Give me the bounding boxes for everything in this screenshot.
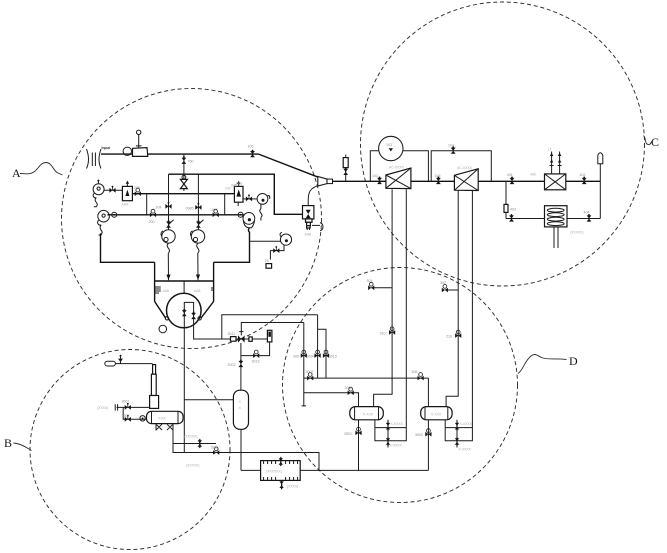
svg-text:3602: 3602 xyxy=(122,414,130,418)
svg-text:( ): ( ) xyxy=(548,147,551,151)
wire: rail connector left xyxy=(146,194,148,215)
valve 106 xyxy=(436,177,441,185)
vessel V2 xyxy=(421,407,452,420)
wire: header line of pump group xyxy=(169,174,303,214)
valve at pump P1 outlet xyxy=(109,186,115,193)
svg-text:(XXXXX): (XXXXX) xyxy=(184,435,198,439)
svg-text:240: 240 xyxy=(225,186,231,190)
wire: pump P5 discharge with flex xyxy=(197,243,199,280)
wire: diagonal to mixer nozzle xyxy=(259,154,319,177)
V2 discharge valves xyxy=(455,420,459,448)
svg-text:(XXXX): (XXXX) xyxy=(97,406,108,410)
wire: main inlet line xyxy=(101,153,259,155)
svg-text:AC-XXXX: AC-XXXX xyxy=(457,166,473,170)
svg-text:306: 306 xyxy=(412,370,418,374)
leader D xyxy=(518,354,567,373)
svg-text:AA8: AA8 xyxy=(194,289,201,293)
circle valve on lower rail right xyxy=(238,212,243,217)
svg-text:0985: 0985 xyxy=(186,206,194,210)
burner vessel B1 xyxy=(147,411,184,430)
valve 206 xyxy=(213,209,219,217)
wire: fuel inlet upper xyxy=(117,406,150,408)
deaerator box xyxy=(261,461,301,481)
svg-text:D: D xyxy=(569,354,578,368)
wire: drop to pump P4 xyxy=(168,174,170,229)
wire: rail connector right xyxy=(224,194,226,215)
wire: V1 downcomer xyxy=(358,420,360,471)
valve 0985 xyxy=(195,203,201,210)
wire: bypass loop 2 xyxy=(431,151,491,181)
valve 3013 xyxy=(323,350,329,358)
angle valve above pump P4 xyxy=(166,220,174,228)
wire: left riser xyxy=(505,181,507,219)
wire: AAD outlet xyxy=(243,198,257,200)
valve 401 xyxy=(510,177,515,185)
dashed circle D xyxy=(283,268,518,503)
heat exchanger E1 xyxy=(386,168,411,189)
filter AAA xyxy=(122,181,132,201)
svg-text:Y-XX: Y-XX xyxy=(158,417,166,421)
valve 3007 xyxy=(307,373,313,381)
V1 discharge valves xyxy=(386,420,390,448)
svg-text:A: A xyxy=(12,166,21,180)
svg-text:301: 301 xyxy=(367,279,373,283)
svg-text:X-XXXX: X-XXXX xyxy=(460,422,473,426)
arrow into hopper left xyxy=(166,275,170,281)
blob valve on box top xyxy=(279,457,283,466)
svg-text:245: 245 xyxy=(231,184,237,188)
wire: AAB side outlet xyxy=(312,224,320,226)
pump P2 xyxy=(98,210,110,235)
svg-text:3004: 3004 xyxy=(307,354,315,358)
pump P7 small circulation xyxy=(280,232,292,245)
wire: leg E1-b xyxy=(405,189,407,427)
valve 402 xyxy=(582,177,587,185)
svg-text:3002: 3002 xyxy=(228,363,236,367)
dashed circle B xyxy=(30,350,230,550)
hopper/furnace vessel xyxy=(155,262,214,318)
pump P3 (teardrop) xyxy=(243,213,255,228)
valve 310 xyxy=(389,327,395,335)
arrow into hopper right xyxy=(196,275,200,281)
wire: main hot gas line xyxy=(333,180,601,182)
svg-text:700: 700 xyxy=(188,160,194,164)
leader B xyxy=(14,443,32,451)
svg-text:AC-XXXX: AC-XXXX xyxy=(389,166,405,170)
wire: bypass loop 1 xyxy=(370,151,428,181)
pump P1 (blower with curl) xyxy=(93,180,104,207)
svg-text:X-XXXX: X-XXXX xyxy=(390,443,403,447)
valve 3601 xyxy=(125,403,131,410)
valve 700 on riser xyxy=(183,154,185,174)
svg-text:310: 310 xyxy=(380,331,386,335)
instrument probes above E3 xyxy=(550,152,562,174)
wire: meter drain xyxy=(241,342,270,356)
wire: nozzle down pipe to AAB xyxy=(308,186,317,206)
wire: furnace outlet line xyxy=(194,327,268,340)
svg-text:3008: 3008 xyxy=(345,386,353,390)
svg-text:AAA: AAA xyxy=(122,203,130,207)
valve 204 xyxy=(165,202,171,209)
leader C xyxy=(644,136,654,145)
svg-text:AA8: AA8 xyxy=(163,289,170,293)
svg-text:3007: 3007 xyxy=(306,370,314,374)
valve 210 xyxy=(455,330,461,338)
blob valve under box xyxy=(281,480,283,489)
svg-text:(XXXXX): (XXXXX) xyxy=(570,231,584,235)
valve 404 xyxy=(587,214,592,222)
wire: upper branch line xyxy=(222,315,318,339)
wire: leg E1-a xyxy=(374,189,393,406)
valve 3502 xyxy=(425,429,431,437)
wire: left outer feed xyxy=(101,233,155,262)
valve 3004 xyxy=(315,350,321,358)
svg-text:210: 210 xyxy=(446,335,452,339)
wire: leg E2-a xyxy=(446,191,458,407)
valve 306 xyxy=(418,373,424,381)
coil heat exchanger xyxy=(545,206,568,248)
drain fitting xyxy=(266,264,272,269)
valve 3002 xyxy=(239,360,244,368)
wire: feed line to vessel V1 xyxy=(304,393,359,407)
svg-text:206: 206 xyxy=(212,208,218,212)
svg-text:401: 401 xyxy=(507,173,513,177)
valve 3012 xyxy=(253,350,259,358)
circle valve on lower rail left xyxy=(112,212,117,217)
svg-text:C: C xyxy=(651,135,659,149)
svg-text:X-XXXX: X-XXXX xyxy=(391,422,404,426)
svg-text:200: 200 xyxy=(149,220,155,224)
svg-text:(XXXX): (XXXX) xyxy=(287,484,298,488)
pump P4 xyxy=(161,230,175,243)
svg-text:3502: 3502 xyxy=(415,433,423,437)
svg-text:102: 102 xyxy=(372,174,378,178)
wire: right downcomer xyxy=(599,164,601,219)
circle valve at vessel inlet xyxy=(140,416,145,421)
wire: branch risers xyxy=(303,323,305,406)
control valve (globe) on center drop xyxy=(180,174,187,191)
svg-text:402: 402 xyxy=(580,173,586,177)
valve 200 xyxy=(150,209,156,217)
svg-text:3012: 3012 xyxy=(252,360,260,364)
valve 102 xyxy=(377,177,382,185)
pump P6 xyxy=(257,194,270,221)
wire: lower rail xyxy=(107,214,243,216)
svg-text:25: 25 xyxy=(265,259,269,263)
component AAB xyxy=(303,206,314,230)
wire: drop to water tank xyxy=(240,343,242,390)
blob valve on spare outlet xyxy=(198,439,202,448)
foot circle left xyxy=(165,317,168,320)
heat exchanger E3 xyxy=(545,174,566,190)
svg-text:300: 300 xyxy=(293,354,299,358)
valve 300 xyxy=(301,350,307,358)
svg-text:3011: 3011 xyxy=(228,332,236,336)
mixer nozzle xyxy=(318,177,327,187)
svg-text:3501: 3501 xyxy=(344,432,352,436)
svg-text:408: 408 xyxy=(530,172,536,176)
blower 103 xyxy=(379,136,403,160)
svg-text:505: 505 xyxy=(211,446,217,450)
angle valve above pump P5 xyxy=(196,220,204,228)
wire: upper rail xyxy=(104,189,123,191)
valve 245 xyxy=(246,194,252,201)
svg-text:204: 204 xyxy=(156,205,162,209)
dashed circle C xyxy=(361,2,645,286)
valve 104 xyxy=(451,146,456,154)
svg-text:104: 104 xyxy=(448,143,454,147)
wire: drop to pump P5 xyxy=(197,174,199,229)
wire: P7 outlet xyxy=(270,245,284,260)
filter AAD xyxy=(234,181,243,206)
pump P5 xyxy=(190,230,204,243)
wire: furnace drain down to tank xyxy=(183,320,185,453)
wire: tank drain xyxy=(240,429,242,470)
burner lances inside furnace xyxy=(182,302,196,326)
valve 302 stub xyxy=(445,289,458,291)
svg-text:302: 302 xyxy=(440,281,446,285)
svg-text:X-XXXX: X-XXXX xyxy=(459,447,472,451)
flow meter xyxy=(267,330,272,342)
heat exchanger E2 xyxy=(454,169,478,191)
strainer 403 xyxy=(504,204,508,212)
wire: V2 feed drop xyxy=(427,378,429,407)
svg-text:404: 404 xyxy=(584,210,590,214)
vent flask xyxy=(598,153,603,164)
leader A xyxy=(20,163,63,176)
wire: V2 lower loop xyxy=(445,420,472,441)
svg-text:X-XXX: X-XXX xyxy=(363,412,374,416)
blower fan F1 on inlet line xyxy=(123,130,148,156)
wire: V1 lower loop xyxy=(375,420,406,441)
svg-text:265: 265 xyxy=(134,186,140,190)
svg-text:X-XXX: X-XXX xyxy=(431,412,442,416)
wire: right outer feed xyxy=(214,228,250,263)
svg-text:3013: 3013 xyxy=(329,354,337,358)
wire: second branch line xyxy=(241,322,304,324)
valve on P7 outlet xyxy=(273,246,279,253)
svg-text:403: 403 xyxy=(510,208,516,212)
oil cylinder with rod xyxy=(150,365,159,409)
svg-text:AAB: AAB xyxy=(305,232,313,236)
svg-text:Input: Input xyxy=(102,146,111,150)
igniter lamp xyxy=(105,355,153,366)
svg-text:106: 106 xyxy=(435,174,441,178)
valve 301 stub xyxy=(371,287,392,289)
svg-text:(XXXXX): (XXXXX) xyxy=(186,464,200,468)
svg-text:B: B xyxy=(4,436,12,450)
valve 505 xyxy=(213,447,219,455)
valve 3602 xyxy=(125,415,131,422)
wire: V2 downcomer xyxy=(427,420,429,471)
wire: branch to water tank xyxy=(184,399,233,401)
svg-text:(XXXXXX): (XXXXXX) xyxy=(266,470,282,474)
svg-text:3601: 3601 xyxy=(122,400,130,404)
wire: distribution line to D xyxy=(304,377,429,379)
valve 105 xyxy=(250,150,255,158)
dashed circle A xyxy=(62,89,322,349)
vessel V1 xyxy=(350,407,384,420)
flange end xyxy=(117,404,119,410)
wire: bottom collection line xyxy=(241,469,261,471)
wire: P3 tail to P7 xyxy=(250,240,281,242)
furnace circle xyxy=(167,293,202,328)
wire: spare outlet xyxy=(173,443,216,445)
svg-text:105: 105 xyxy=(248,145,254,149)
flexible joint (inlet silencer) xyxy=(87,149,102,169)
rotameter instrument xyxy=(343,155,348,181)
foot circle right xyxy=(198,317,201,320)
wire: burner outlet xyxy=(173,431,319,471)
wire: fuel inlet lower xyxy=(123,407,146,419)
valve 265 xyxy=(135,188,141,196)
svg-text:103: 103 xyxy=(386,143,392,147)
wire: return line xyxy=(506,218,600,220)
valve 3008 xyxy=(348,387,354,395)
ash valve assembly 3011 xyxy=(231,323,253,343)
wire: leg E2-b xyxy=(471,191,473,428)
valve 3501 xyxy=(355,427,361,435)
wire: pump P4 discharge with flex xyxy=(167,243,169,280)
small circle under furnace xyxy=(159,325,167,333)
water tank 500 xyxy=(233,390,248,429)
